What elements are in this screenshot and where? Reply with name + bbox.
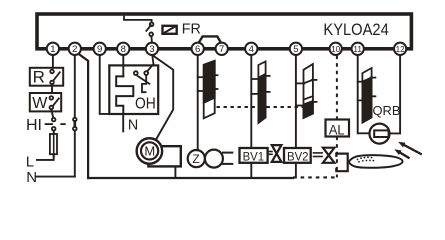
photoresistor symbol FR bbox=[163, 26, 177, 34]
svg-text:QRB: QRB bbox=[373, 103, 401, 118]
terminal 5 bbox=[290, 43, 302, 55]
wire terminal 1 to R box bbox=[52, 55, 54, 68]
svg-text:R: R bbox=[33, 68, 45, 87]
svg-text:BV1: BV1 bbox=[243, 149, 265, 163]
neutral bus dashed bbox=[293, 176, 337, 178]
svg-text:W: W bbox=[32, 95, 48, 112]
wire terminal 6 down to ignition transformer bbox=[197, 55, 199, 150]
wire W to main switch bbox=[51, 109, 53, 118]
main switch pole 2 (closed) bbox=[73, 118, 77, 131]
svg-text:OH: OH bbox=[135, 95, 156, 112]
svg-text:9: 9 bbox=[97, 44, 102, 55]
svg-text:8: 8 bbox=[121, 44, 126, 55]
wire terminal 9 to OH neutral bbox=[100, 55, 124, 114]
svg-text:AL: AL bbox=[329, 121, 345, 137]
terminal 7 bbox=[216, 43, 228, 55]
wire switch to N line bbox=[74, 131, 76, 177]
svg-text:10: 10 bbox=[331, 44, 340, 54]
wire terminal 11 down bbox=[358, 55, 370, 133]
wire terminal 8 down bbox=[122, 55, 124, 77]
burner motor M bbox=[137, 138, 181, 178]
wire N line bbox=[37, 176, 75, 178]
pipe stubs BV1-valve bbox=[268, 151, 272, 153]
internal switch above terminal 3 bbox=[124, 17, 153, 43]
terminal 9 bbox=[94, 43, 106, 55]
spray cone bbox=[349, 155, 403, 168]
wire BV1 to bus bbox=[250, 163, 252, 178]
connector wedge under 11 bbox=[358, 68, 376, 123]
valve symbol 1 bbox=[272, 145, 282, 162]
wire terminal 2 branch to neutral bus bbox=[78, 54, 88, 178]
photocell body rect bbox=[374, 130, 388, 137]
alarm box AL bbox=[326, 120, 350, 137]
connector plane dashed 4-5 bbox=[267, 106, 303, 108]
terminal 2 bbox=[69, 43, 81, 55]
ignition transformer Z bbox=[188, 150, 233, 168]
jumper bridge between terminals 6 and 7 bbox=[198, 36, 222, 44]
wire terminal 4 down bbox=[250, 55, 252, 148]
svg-text:M: M bbox=[144, 144, 155, 159]
alarm dashed wire from terminal 10 bbox=[336, 56, 338, 120]
terminal 4 bbox=[245, 43, 257, 55]
pipe stubs BV2-valve bbox=[314, 152, 323, 154]
contact in R bbox=[50, 70, 60, 85]
terminal 8 bbox=[117, 43, 129, 55]
wire terminal 5 down bbox=[295, 55, 297, 148]
svg-text:1: 1 bbox=[50, 44, 55, 55]
terminal 12 bbox=[394, 43, 406, 55]
svg-text:KYLOA24: KYLOA24 bbox=[323, 20, 388, 39]
connector wedge under 6 bbox=[198, 61, 218, 119]
wire terminal 2 down bbox=[74, 55, 76, 118]
main switch HI pole 1 bbox=[46, 118, 56, 131]
wire terminal 12 down bbox=[390, 55, 401, 133]
svg-text:HI: HI bbox=[26, 117, 42, 134]
fuel valve BV2 box bbox=[284, 148, 311, 163]
thermostat W box bbox=[30, 93, 61, 111]
thermostat R box bbox=[30, 68, 63, 86]
svg-text:FR: FR bbox=[182, 22, 201, 38]
svg-text:5: 5 bbox=[293, 44, 298, 55]
contact in W bbox=[50, 96, 59, 109]
svg-text:2: 2 bbox=[72, 44, 77, 55]
heater element meander bbox=[116, 76, 133, 114]
terminal 6 bbox=[192, 43, 204, 55]
fuse bbox=[37, 131, 57, 160]
svg-text:3: 3 bbox=[149, 44, 154, 55]
wire R to W bbox=[51, 84, 53, 93]
svg-text:N: N bbox=[26, 169, 37, 186]
coupling dash bbox=[61, 123, 65, 125]
preheater release contact bbox=[134, 55, 154, 92]
terminal 3 bbox=[146, 43, 158, 55]
flame light arrow 2 bbox=[394, 149, 408, 158]
svg-text:Z: Z bbox=[192, 152, 199, 166]
terminal 1 bbox=[47, 43, 59, 55]
oil preheater box OH bbox=[109, 65, 158, 114]
flame light arrow 1 bbox=[398, 142, 421, 154]
svg-text:6: 6 bbox=[195, 44, 200, 55]
dashed wire AL to bus bbox=[336, 137, 338, 178]
control box KYLOA24 outline bbox=[37, 14, 411, 49]
svg-text:7: 7 bbox=[219, 44, 224, 55]
connector plane dashed 6-4 bbox=[217, 106, 258, 108]
valve symbol 2 bbox=[323, 148, 335, 163]
svg-text:11: 11 bbox=[353, 44, 362, 54]
terminal 10 bbox=[330, 43, 342, 55]
neutral bus solid bbox=[88, 177, 293, 179]
svg-text:12: 12 bbox=[396, 44, 405, 54]
wire OH to N stub bbox=[122, 114, 124, 131]
fuel valve BV1 box bbox=[240, 148, 268, 163]
terminal 11 bbox=[352, 43, 364, 55]
photocell QRB circle bbox=[370, 124, 390, 144]
spray droplets bbox=[357, 156, 375, 162]
svg-text:N: N bbox=[128, 117, 138, 133]
terminal circles bbox=[47, 43, 407, 55]
svg-text:BV2: BV2 bbox=[287, 149, 309, 163]
connector wedge under 4 bbox=[251, 61, 269, 122]
terminal digits bbox=[50, 44, 405, 55]
wire BV2 to dashed bus bbox=[295, 163, 297, 178]
connector wedge under 5 bbox=[296, 64, 317, 118]
wire terminal 3 to motor bbox=[152, 55, 173, 140]
svg-text:4: 4 bbox=[249, 44, 255, 55]
nozzle bracket bbox=[336, 154, 347, 172]
